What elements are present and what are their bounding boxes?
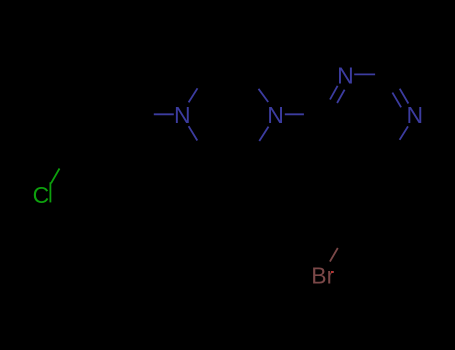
double bond C4=N3 inner line half	[337, 90, 345, 103]
bond N3 to C2 quinazoline half	[354, 73, 375, 75]
double bond C2=N1 outer line half	[400, 89, 409, 104]
red dot artifact on r of Br	[331, 271, 333, 273]
bond N(pip-left) to C6 half	[189, 126, 198, 140]
svg-text:N: N	[337, 62, 354, 88]
bond N(pip-right) to quinazoline C4 half	[285, 113, 304, 115]
svg-text:Br: Br	[311, 263, 334, 289]
bond N(pip-left) to phenyl C1 half	[154, 113, 174, 115]
double bond C2=N1 inner line half	[392, 93, 401, 108]
bond N(pip-left) to C2 half	[189, 88, 198, 102]
svg-text:N: N	[174, 102, 191, 128]
svg-text:N: N	[267, 102, 284, 128]
bond N(pip-right) to C3 half	[259, 89, 269, 102]
atom Cl letter l drawn as bar	[49, 182, 51, 202]
bond N(pip-right) to C5 half	[259, 127, 268, 141]
double bond C4=N3 outer line half	[330, 86, 338, 100]
svg-text:N: N	[406, 102, 423, 128]
bond C6 to Br half	[330, 248, 338, 262]
bond N1 to C8a half	[400, 126, 408, 139]
svg-text:C: C	[33, 182, 50, 208]
bond C3' to Cl half	[51, 169, 60, 184]
